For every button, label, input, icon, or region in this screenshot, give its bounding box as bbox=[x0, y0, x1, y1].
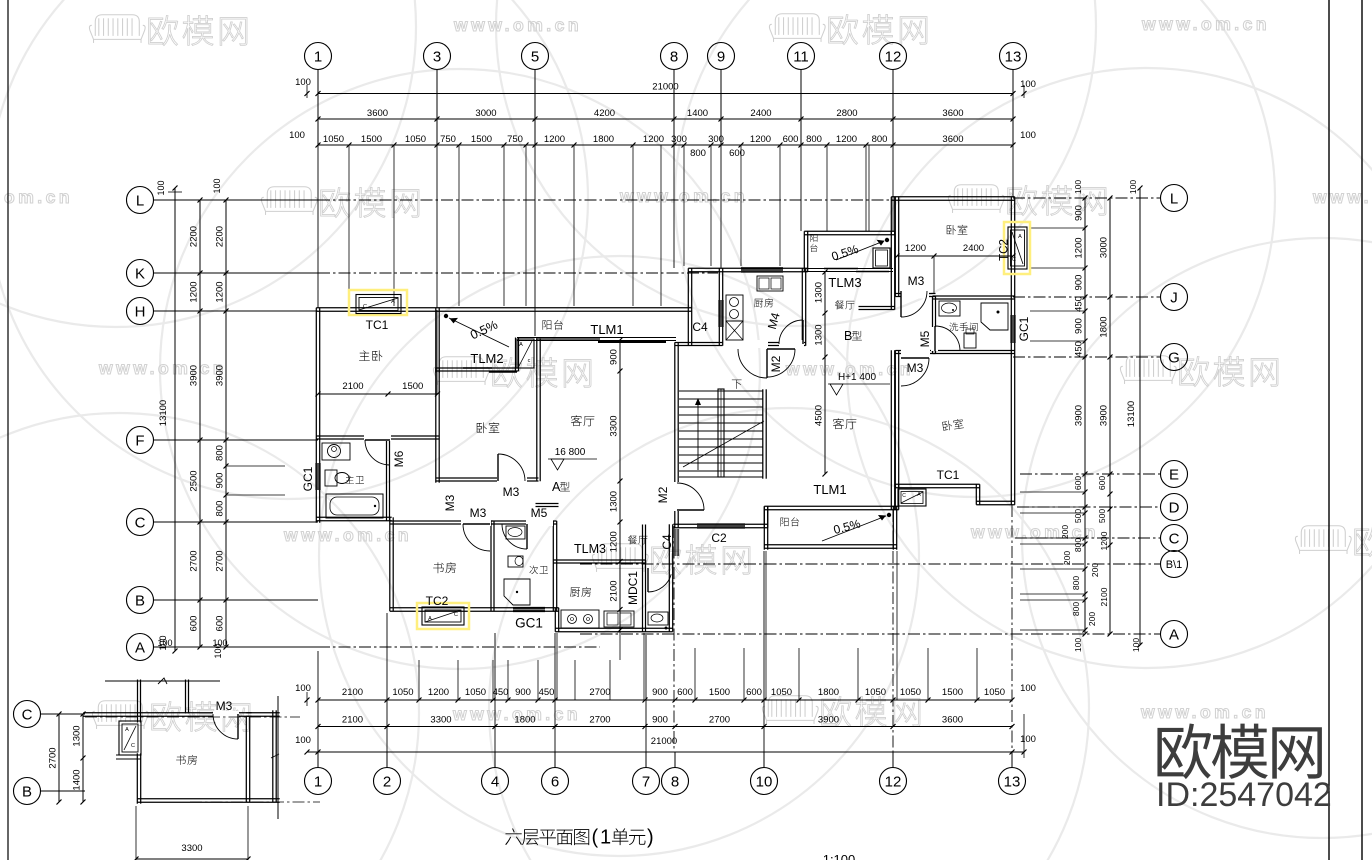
wall study/bath2 bottom bbox=[390, 607, 559, 609]
wall unitB right upper bbox=[890, 231, 892, 309]
svg-text:B\1: B\1 bbox=[1166, 559, 1183, 571]
svg-text:C: C bbox=[1169, 530, 1180, 547]
svg-text:C: C bbox=[1012, 257, 1016, 263]
svg-text:900: 900 bbox=[1074, 318, 1085, 334]
svg-text:13100: 13100 bbox=[158, 400, 169, 426]
svg-text:1050: 1050 bbox=[405, 134, 426, 145]
svg-text:M3: M3 bbox=[470, 506, 487, 520]
svg-text:100: 100 bbox=[1020, 734, 1036, 745]
svg-text:J: J bbox=[1170, 289, 1178, 306]
bath1 toilet bbox=[325, 470, 337, 486]
dimension chain bottom rooms bbox=[318, 726, 1012, 728]
svg-text:8: 8 bbox=[670, 48, 678, 65]
svg-text:200: 200 bbox=[1062, 551, 1072, 565]
svg-text:3900: 3900 bbox=[818, 715, 839, 726]
wall kitchenB left bbox=[718, 268, 720, 345]
grid bubble left L bbox=[127, 187, 154, 214]
slope 0.5% balconyB bottom bbox=[887, 513, 891, 517]
svg-text:900: 900 bbox=[609, 349, 620, 365]
svg-text:2700: 2700 bbox=[215, 550, 226, 571]
wall bed2 top bbox=[436, 367, 519, 369]
svg-text:12: 12 bbox=[885, 48, 902, 65]
svg-text:100: 100 bbox=[289, 130, 305, 141]
svg-text:100: 100 bbox=[1020, 79, 1036, 90]
grid bubble left C bbox=[127, 509, 154, 536]
door M6 bath1 bbox=[364, 434, 391, 441]
door M2 hall-corridor bbox=[673, 482, 681, 511]
svg-text:www.om.cn: www.om.cn bbox=[1141, 14, 1270, 34]
wall bathR left bbox=[932, 296, 934, 354]
watermark sofa 欧模网 bbox=[433, 357, 489, 385]
wall step unitB/unit3 bbox=[894, 484, 896, 509]
grid row right C bbox=[1015, 537, 1161, 539]
sheet border left bbox=[7, 0, 9, 860]
svg-text:16 800: 16 800 bbox=[555, 447, 586, 458]
window C4 left corridor bbox=[673, 529, 675, 556]
room 客厅 B bbox=[833, 418, 857, 429]
window TC2 study highlighted bbox=[417, 603, 469, 629]
svg-text:M3: M3 bbox=[908, 274, 925, 288]
wall bed1 right upper bbox=[435, 308, 437, 373]
svg-text:2700: 2700 bbox=[189, 550, 200, 571]
detail right wall bbox=[245, 716, 247, 802]
svg-text:1200: 1200 bbox=[189, 281, 200, 302]
svg-text:9: 9 bbox=[717, 48, 725, 65]
svg-text:H+1 400: H+1 400 bbox=[838, 372, 877, 383]
grid line 11 bbox=[800, 145, 802, 231]
svg-text:2400: 2400 bbox=[750, 108, 771, 119]
svg-text:13: 13 bbox=[1004, 773, 1021, 790]
room 主卧 bbox=[359, 350, 382, 361]
grid line bottom 6 bbox=[554, 633, 556, 752]
grid bubble bottom 8 bbox=[662, 768, 689, 795]
door TLM2 sliding bbox=[463, 367, 492, 369]
grid bubble top 8 bbox=[661, 43, 688, 70]
room 书房 bbox=[433, 562, 456, 573]
grid row right D bbox=[1017, 506, 1161, 508]
bath2 shower bbox=[504, 579, 530, 605]
window GC1 bath2 bbox=[513, 606, 545, 608]
svg-text:800: 800 bbox=[872, 134, 888, 145]
svg-text:450: 450 bbox=[493, 687, 509, 698]
watermark sofa 欧模网 bbox=[769, 14, 825, 42]
svg-text:450: 450 bbox=[1074, 341, 1085, 357]
svg-text:7: 7 bbox=[642, 773, 650, 790]
door M3 bed2 bbox=[497, 476, 527, 483]
label 次卫 bbox=[529, 565, 548, 574]
svg-text:3900: 3900 bbox=[189, 365, 200, 386]
grid bubble top 12 bbox=[880, 43, 907, 70]
svg-text:A: A bbox=[135, 639, 145, 656]
svg-text:1050: 1050 bbox=[465, 687, 486, 698]
svg-text:8: 8 bbox=[671, 773, 679, 790]
svg-text:13: 13 bbox=[1005, 48, 1022, 65]
svg-text:3900: 3900 bbox=[1099, 405, 1110, 426]
label B型 bbox=[844, 329, 862, 343]
wall step x806 bbox=[803, 231, 805, 271]
wall step x893 bbox=[890, 197, 892, 235]
room 餐厅 corridor bbox=[628, 535, 648, 544]
svg-text:900: 900 bbox=[215, 473, 226, 489]
svg-text:3600: 3600 bbox=[367, 108, 388, 119]
grid line 13 lower bbox=[1011, 505, 1013, 752]
mdc sink bbox=[648, 612, 668, 625]
grid bubble bottom 7 bbox=[633, 768, 660, 795]
svg-text:900: 900 bbox=[652, 715, 668, 726]
svg-text:1300: 1300 bbox=[814, 282, 825, 303]
svg-text:TC1: TC1 bbox=[366, 318, 389, 332]
svg-text:C: C bbox=[135, 514, 146, 531]
svg-text:M5: M5 bbox=[531, 506, 548, 520]
svg-text:500: 500 bbox=[1097, 509, 1107, 523]
svg-text:1800: 1800 bbox=[1099, 316, 1110, 337]
svg-text:K: K bbox=[135, 265, 145, 282]
svg-text:1500: 1500 bbox=[471, 134, 492, 145]
extension lines bottom bbox=[418, 660, 420, 700]
watermark sofa 欧模网 bbox=[92, 701, 148, 729]
wall kitchen bottom bbox=[555, 627, 672, 629]
watermark sofa 欧模网 bbox=[1295, 526, 1351, 554]
grid row B bbox=[154, 599, 319, 601]
wall balconyB2 bottom bbox=[764, 544, 896, 546]
wall bath1 bottom bbox=[316, 516, 391, 518]
svg-text:C: C bbox=[131, 743, 135, 749]
stairs break line bbox=[683, 421, 764, 467]
logo 欧模网 bbox=[1157, 723, 1211, 779]
grid line bottom 10 bbox=[763, 551, 765, 752]
svg-text:3000: 3000 bbox=[475, 108, 496, 119]
detail bottom dim 3300 bbox=[136, 858, 248, 860]
dimension chain top total 21000 bbox=[318, 93, 1013, 95]
grid line 3 inner bbox=[436, 310, 438, 394]
svg-text:C: C bbox=[22, 706, 33, 723]
left inner dim extension lines bbox=[226, 465, 285, 467]
grid line 1 bbox=[317, 145, 319, 308]
svg-text:800: 800 bbox=[215, 445, 226, 461]
door M4 kitchenB bbox=[779, 340, 804, 348]
grid bubble right C bbox=[1161, 525, 1188, 552]
window C4 kitchenB left bbox=[718, 300, 720, 327]
grid line 13 bbox=[1012, 145, 1014, 197]
svg-text:1500: 1500 bbox=[361, 134, 382, 145]
svg-text:3900: 3900 bbox=[1074, 405, 1085, 426]
grid row K bbox=[154, 272, 319, 274]
grid row L bbox=[154, 199, 319, 201]
svg-text:600: 600 bbox=[783, 134, 799, 145]
grid line 8 bbox=[673, 145, 675, 268]
grid bubble top 11 bbox=[788, 43, 815, 70]
wall bathR bottom bbox=[933, 350, 1015, 352]
svg-text:2500: 2500 bbox=[189, 470, 200, 491]
svg-text:4: 4 bbox=[491, 773, 499, 790]
svg-text:TLM3: TLM3 bbox=[828, 275, 861, 290]
svg-text:M5: M5 bbox=[918, 330, 932, 347]
svg-text:100: 100 bbox=[1020, 683, 1036, 694]
grid bubble bottom 2 bbox=[374, 768, 401, 795]
grid bubble left B bbox=[127, 587, 154, 614]
window GC1 unit3 right bbox=[1010, 315, 1012, 343]
wall unit1 left bbox=[315, 308, 317, 523]
door MDC1 bbox=[647, 568, 649, 592]
kitchenB xbox bbox=[726, 321, 743, 340]
svg-text:21000: 21000 bbox=[651, 736, 677, 747]
svg-text:B: B bbox=[22, 783, 32, 800]
stairs center rails bbox=[718, 389, 724, 477]
bath1 sink bbox=[322, 443, 350, 460]
wall bath2 right bbox=[552, 521, 554, 611]
svg-text:4500: 4500 bbox=[814, 405, 825, 426]
wall unit3 left lower bbox=[894, 350, 896, 487]
svg-text:1400: 1400 bbox=[72, 769, 83, 790]
svg-text:900: 900 bbox=[515, 687, 531, 698]
svg-text:21000: 21000 bbox=[652, 82, 678, 93]
svg-text:A: A bbox=[428, 616, 432, 622]
grid bubble left A bbox=[127, 634, 154, 661]
detail window A/C bbox=[119, 721, 141, 755]
grid bubble top 13 bbox=[1000, 43, 1027, 70]
right dim chain mid bbox=[1109, 198, 1111, 634]
wall unit1 top / balcony top bbox=[316, 307, 691, 309]
svg-text:C: C bbox=[902, 493, 906, 499]
svg-text:M6: M6 bbox=[392, 450, 406, 467]
slope 0.5% unit1 bbox=[444, 314, 448, 318]
kitchen1 stove bbox=[561, 610, 599, 628]
svg-text:800: 800 bbox=[1071, 602, 1081, 616]
svg-text:12: 12 bbox=[885, 773, 902, 790]
wall bed2/living divider bbox=[536, 338, 538, 481]
svg-text:3600: 3600 bbox=[942, 108, 963, 119]
svg-text:ID:2547042: ID:2547042 bbox=[1156, 776, 1332, 814]
svg-text:TLM3: TLM3 bbox=[574, 542, 606, 556]
grid line bottom 2 bbox=[386, 613, 388, 752]
grid line 3 bbox=[436, 145, 438, 308]
sheet border right inner bbox=[1328, 0, 1330, 860]
room 卧室 unit3 top bbox=[947, 225, 968, 235]
svg-text:TC1: TC1 bbox=[937, 468, 960, 482]
wall hall nub bbox=[536, 503, 559, 505]
wall bath2 top bbox=[491, 520, 557, 522]
svg-text:2700: 2700 bbox=[589, 715, 610, 726]
svg-text:450: 450 bbox=[1074, 296, 1085, 312]
svg-text:M3: M3 bbox=[443, 494, 457, 511]
svg-text:A: A bbox=[519, 342, 523, 348]
bath2 toilet bbox=[508, 556, 523, 567]
room 餐厅 B bbox=[835, 300, 855, 309]
grid bubble bottom 10 bbox=[751, 768, 778, 795]
wall balcony1 end bbox=[515, 338, 517, 372]
svg-text:2100: 2100 bbox=[342, 687, 363, 698]
grid row right L bbox=[1013, 197, 1161, 199]
left dim chain mid bbox=[199, 200, 201, 647]
svg-text:750: 750 bbox=[440, 134, 456, 145]
svg-text:450: 450 bbox=[539, 687, 555, 698]
svg-text:G: G bbox=[1168, 349, 1180, 366]
wall kitchenB right bbox=[801, 268, 803, 345]
wall bed2 bottom bbox=[436, 477, 539, 479]
door M5 bath2 bbox=[526, 519, 553, 526]
svg-text:www.om.cn: www.om.cn bbox=[619, 186, 748, 206]
grid bubble top 5 bbox=[522, 43, 549, 70]
svg-text:1: 1 bbox=[600, 827, 611, 849]
grid bubble left K bbox=[127, 260, 154, 287]
svg-text:900: 900 bbox=[652, 687, 668, 698]
svg-text:300: 300 bbox=[708, 134, 724, 145]
svg-text:1500: 1500 bbox=[709, 687, 730, 698]
window TC1 unit3 bottom bbox=[898, 489, 926, 506]
left dim chain total 13100 bbox=[174, 188, 176, 651]
svg-text:www.om.cn: www.om.cn bbox=[1312, 187, 1372, 207]
svg-text:c: c bbox=[528, 358, 531, 364]
svg-text:1:100: 1:100 bbox=[823, 852, 856, 860]
room 客厅 unit1 bbox=[571, 415, 595, 426]
dimension chain top detail bbox=[318, 144, 1013, 146]
svg-text:L: L bbox=[136, 192, 144, 209]
window C3 bbox=[741, 267, 783, 269]
svg-text:3600: 3600 bbox=[942, 715, 963, 726]
grid line bottom 4 bbox=[494, 633, 496, 752]
svg-text:TC2: TC2 bbox=[999, 239, 1011, 261]
bath2 sink bbox=[506, 526, 525, 539]
grid row H bbox=[154, 310, 319, 312]
svg-text:1300: 1300 bbox=[72, 725, 83, 746]
detail dims bbox=[58, 714, 60, 802]
wall bath2 left bbox=[490, 521, 492, 611]
grid bubble right G bbox=[1161, 344, 1188, 371]
svg-text:1200: 1200 bbox=[750, 134, 771, 145]
svg-text:C: C bbox=[363, 304, 367, 310]
label A型 bbox=[552, 480, 570, 494]
title 六层平面图(1单元) bbox=[505, 827, 653, 849]
room 卧室 unit3 bottom bbox=[942, 418, 964, 431]
svg-text:M2: M2 bbox=[656, 486, 670, 503]
svg-text:800: 800 bbox=[806, 134, 822, 145]
svg-text:600: 600 bbox=[677, 687, 693, 698]
stairs treads bbox=[679, 390, 763, 392]
svg-text:3600: 3600 bbox=[942, 134, 963, 145]
svg-text:800: 800 bbox=[1071, 576, 1081, 590]
dimension chain bottom total bbox=[307, 751, 1024, 753]
svg-text:1050: 1050 bbox=[392, 687, 413, 698]
window/door balconyB right bbox=[873, 248, 890, 268]
bathR shower tray bbox=[981, 303, 1008, 330]
svg-text:3300: 3300 bbox=[609, 415, 620, 436]
svg-text:www.om.cn: www.om.cn bbox=[453, 15, 582, 35]
wall bath1 right bbox=[386, 436, 388, 521]
svg-text:1800: 1800 bbox=[514, 715, 535, 726]
wall unit3 bottom b bbox=[976, 500, 1014, 502]
svg-text:B: B bbox=[135, 592, 145, 609]
grid bubble top 1 bbox=[305, 43, 332, 70]
detail door M3 bbox=[213, 711, 239, 718]
svg-text:MDC1: MDC1 bbox=[626, 571, 640, 605]
svg-text:6: 6 bbox=[551, 773, 559, 790]
svg-text:C4: C4 bbox=[692, 320, 708, 334]
room 卧室 unit1 bbox=[477, 422, 500, 433]
svg-text:TC2: TC2 bbox=[426, 594, 449, 608]
svg-text:L: L bbox=[1170, 190, 1178, 207]
svg-text:5: 5 bbox=[531, 48, 539, 65]
room 阳台 B top bbox=[810, 234, 817, 242]
svg-text:900: 900 bbox=[1074, 205, 1085, 221]
watermark sofa 欧模网 bbox=[1120, 356, 1176, 384]
svg-text:H: H bbox=[135, 303, 146, 320]
room 厨房 B bbox=[754, 298, 773, 307]
room 厨房 unit1 bbox=[570, 587, 591, 597]
wall mdc right bbox=[668, 524, 670, 631]
grid bubble bottom 1 bbox=[305, 768, 332, 795]
grid line 12 lower bbox=[892, 510, 894, 752]
svg-text:(: ( bbox=[591, 827, 598, 849]
svg-text:D: D bbox=[1169, 499, 1180, 516]
wall mdc left upper bbox=[642, 525, 644, 564]
svg-text:): ) bbox=[647, 827, 654, 849]
door M3 study bbox=[461, 519, 491, 526]
dashdot detail bbox=[85, 716, 300, 718]
wall unitB right lower bbox=[890, 350, 892, 509]
door M3 unit3 mid bbox=[901, 349, 930, 356]
svg-text:100: 100 bbox=[157, 638, 172, 648]
watermark sofa 欧模网 bbox=[948, 185, 1004, 213]
dim 2100/1500 in bed1 bbox=[318, 393, 438, 395]
svg-text:2400: 2400 bbox=[963, 243, 984, 254]
grid row right B\1 bbox=[580, 563, 1161, 565]
interior vdim unit1 x620 bbox=[619, 340, 621, 630]
slope 0.5% balconyB top bbox=[885, 238, 889, 242]
svg-text:1800: 1800 bbox=[818, 687, 839, 698]
grid line 8 lower bbox=[673, 526, 675, 752]
svg-text:GC1: GC1 bbox=[301, 466, 315, 491]
svg-text:1500: 1500 bbox=[402, 381, 423, 392]
svg-text:2200: 2200 bbox=[215, 226, 226, 247]
svg-text:TLM2: TLM2 bbox=[470, 351, 503, 366]
grid bubble right B\1 bbox=[1161, 551, 1188, 578]
watermark big arcs bbox=[0, 0, 416, 327]
stairs up arrow bbox=[697, 400, 699, 470]
svg-text:3: 3 bbox=[433, 48, 441, 65]
wall bed2 left bbox=[435, 368, 437, 483]
room 阳台 B bottom bbox=[780, 517, 799, 526]
svg-text:E: E bbox=[1169, 466, 1179, 483]
svg-text:1400: 1400 bbox=[687, 108, 708, 119]
svg-text:C4: C4 bbox=[660, 534, 674, 550]
balcony unit1 bottom wall bbox=[517, 337, 676, 339]
svg-text:1050: 1050 bbox=[865, 687, 886, 698]
grid line 5 bbox=[534, 145, 536, 336]
grid bubble left H bbox=[127, 298, 154, 325]
svg-text:4200: 4200 bbox=[594, 108, 615, 119]
grid row A bbox=[154, 646, 319, 648]
left dim chain inner bbox=[225, 200, 227, 647]
window C2 stair hall bbox=[697, 523, 745, 525]
dimension chain bottom detail bbox=[318, 699, 1012, 701]
door M2 landing bbox=[738, 340, 768, 348]
svg-text:300: 300 bbox=[671, 134, 687, 145]
dim 1200/2400 unit3 bbox=[897, 255, 1013, 257]
svg-text:1200: 1200 bbox=[215, 281, 226, 302]
grid bubble left F bbox=[127, 427, 154, 454]
svg-text:600: 600 bbox=[1097, 476, 1107, 490]
svg-text:F: F bbox=[135, 432, 144, 449]
door TLM3 balconyB sliding bbox=[824, 268, 858, 270]
grid bubble right E bbox=[1161, 461, 1188, 488]
grid bubble detail C bbox=[14, 701, 41, 728]
svg-text:100: 100 bbox=[1131, 638, 1141, 652]
svg-text:M3: M3 bbox=[216, 699, 233, 713]
grid bubble bottom 6 bbox=[542, 768, 569, 795]
svg-text:A: A bbox=[391, 299, 395, 305]
bathR heater bbox=[964, 333, 976, 348]
label 主卫 bbox=[346, 476, 364, 484]
